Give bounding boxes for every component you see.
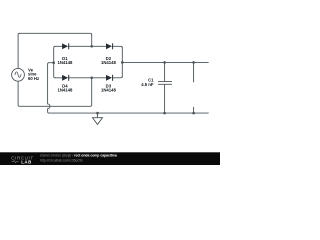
voltage source V1 circle: [12, 68, 25, 81]
svg-text:Daniel Jordan (danji) / rect o: Daniel Jordan (danji) / rect onda comp c…: [40, 154, 117, 158]
cathode bar D4: [68, 75, 70, 81]
svg-text:60 Hz: 60 Hz: [28, 76, 39, 81]
wire: bridge right vertical: [121, 48, 123, 77]
node: DC- stub on left bridge vertical: [52, 61, 55, 64]
svg-text:1N4148: 1N4148: [57, 88, 73, 93]
wire: top rail: [20, 33, 92, 34]
node: bottom riser / diode row junction: [90, 77, 93, 80]
diodes: [62, 43, 112, 80]
wire: DC+ rail: [122, 61, 208, 63]
svg-text:LAB: LAB: [21, 159, 32, 164]
diode D2 triangle: [106, 43, 112, 49]
node: top riser / diode row junction: [90, 45, 93, 48]
ground: [93, 113, 103, 124]
node: DC+ takeoff on right bridge vertical: [121, 61, 124, 64]
diode D1 triangle: [62, 43, 68, 49]
svg-text:http://circuitlab.com/c3bpc5n: http://circuitlab.com/c3bpc5n: [40, 158, 83, 162]
svg-text:1N4148: 1N4148: [101, 60, 117, 65]
junction dots: [52, 45, 195, 114]
wire: bottom diode row: [55, 76, 122, 77]
cathode bar D2: [112, 43, 114, 49]
sine symbol inside source: [15, 72, 21, 77]
cathode bar D3: [112, 75, 114, 81]
wire: bridge left vertical: [54, 46, 55, 78]
node: ground stub on ground rail: [96, 112, 99, 115]
wire: source bottom, source rail, riser to D4/D3 junction: [18, 78, 92, 107]
node: load bottom: [192, 112, 195, 115]
node: C1 bottom: [163, 112, 166, 115]
CircuitLab logo: waveform squiggle: [11, 160, 18, 163]
diode D4 triangle: [62, 75, 68, 81]
svg-text:4.5 nF: 4.5 nF: [141, 82, 154, 87]
footer bar: [0, 152, 220, 165]
svg-text:1N4148: 1N4148: [101, 88, 117, 93]
svg-text:1N4148: 1N4148: [57, 60, 73, 65]
diode D3 triangle: [106, 75, 112, 81]
wire: top diode row: [55, 46, 122, 47]
component labels: [28, 56, 154, 93]
wire: source top to top rail: [18, 33, 19, 68]
capacitor C1: [159, 62, 172, 113]
load stubs (right): [193, 62, 195, 113]
node: C1 top: [163, 61, 166, 64]
wire: riser from top rail to D1/D2 junction: [91, 35, 93, 47]
cathode bar D1: [68, 43, 70, 49]
node: load top: [192, 61, 195, 64]
wire: DC- branch with hop over source rail, then ground rail: [48, 63, 209, 113]
